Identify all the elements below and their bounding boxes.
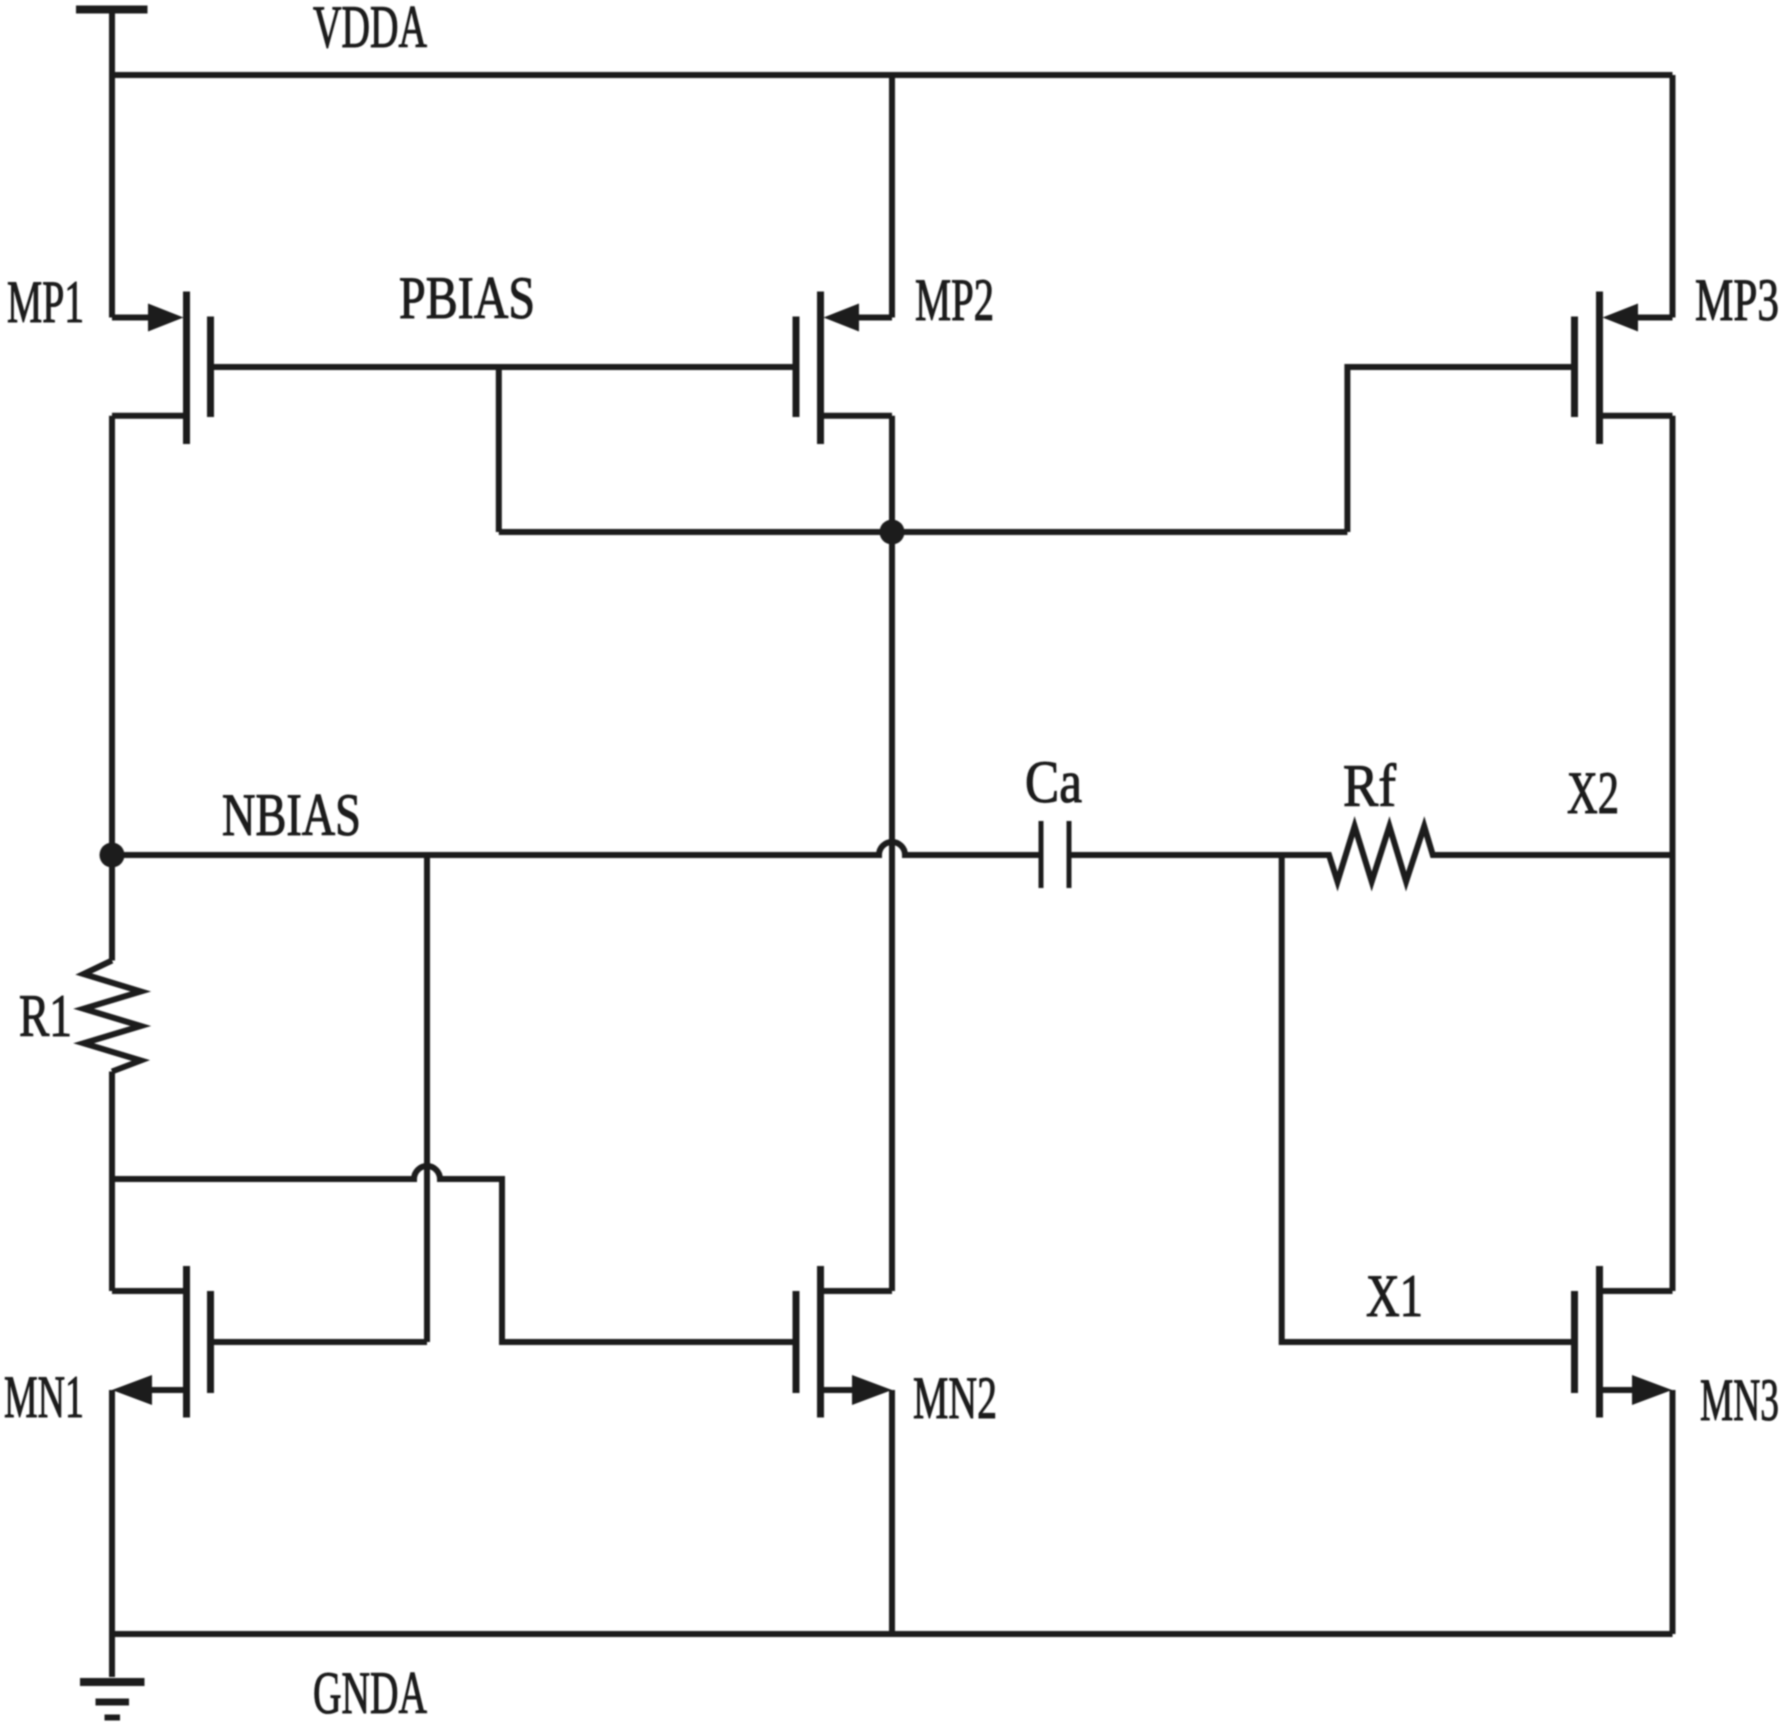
svg-text:MP3: MP3 <box>1695 267 1779 334</box>
svg-text:PBIAS: PBIAS <box>399 265 535 331</box>
svg-text:X1: X1 <box>1366 1262 1423 1329</box>
svg-text:MN3: MN3 <box>1700 1366 1779 1433</box>
svg-text:MP1: MP1 <box>7 269 84 335</box>
svg-text:NBIAS: NBIAS <box>222 781 361 848</box>
svg-text:MN2: MN2 <box>913 1366 997 1432</box>
svg-text:VDDA: VDDA <box>313 0 427 60</box>
svg-text:MP2: MP2 <box>915 267 994 334</box>
svg-text:R1: R1 <box>19 983 72 1050</box>
svg-text:Rf: Rf <box>1343 754 1396 820</box>
svg-text:X2: X2 <box>1567 761 1619 827</box>
svg-text:MN1: MN1 <box>4 1363 84 1430</box>
svg-text:GNDA: GNDA <box>313 1660 427 1725</box>
svg-text:Ca: Ca <box>1025 749 1082 816</box>
